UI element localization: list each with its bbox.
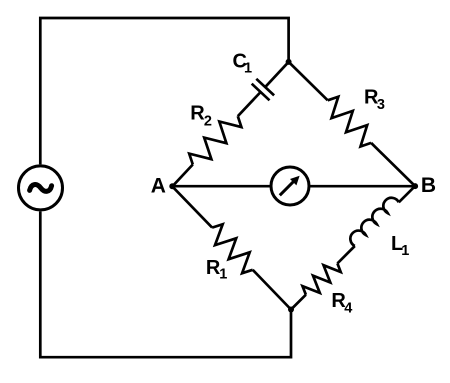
svg-text:1: 1 — [219, 267, 227, 283]
svg-text:B: B — [421, 174, 436, 197]
svg-text:1: 1 — [244, 60, 252, 76]
svg-text:4: 4 — [344, 301, 352, 317]
svg-text:A: A — [151, 175, 166, 198]
svg-text:2: 2 — [204, 113, 212, 129]
svg-text:3: 3 — [377, 97, 385, 113]
svg-text:1: 1 — [401, 243, 409, 259]
